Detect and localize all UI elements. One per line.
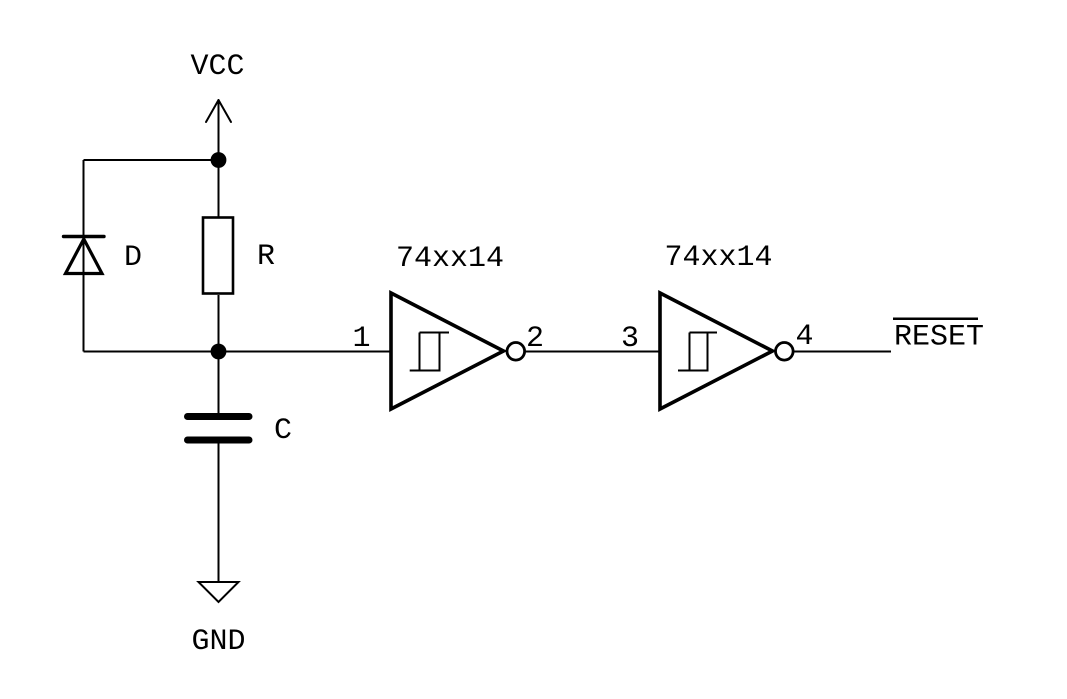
svg-text:R: R	[257, 240, 275, 274]
svg-text:74xx14: 74xx14	[396, 242, 504, 276]
svg-text:1: 1	[352, 322, 370, 356]
svg-text:GND: GND	[191, 625, 245, 659]
svg-text:RESET: RESET	[894, 321, 984, 355]
svg-text:4: 4	[795, 320, 813, 354]
svg-text:74xx14: 74xx14	[664, 241, 772, 275]
svg-text:VCC: VCC	[190, 50, 244, 84]
svg-text:2: 2	[526, 322, 544, 356]
svg-text:D: D	[124, 241, 142, 275]
svg-text:3: 3	[621, 322, 639, 356]
svg-text:C: C	[274, 414, 292, 448]
